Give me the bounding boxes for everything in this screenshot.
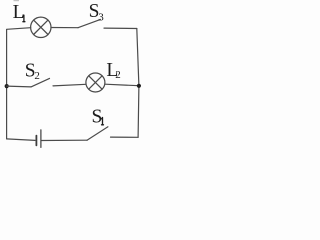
wire: right vertical — [137, 29, 139, 138]
wire: middle left segment to switch S2 pivot — [7, 85, 31, 88]
label L1 — [13, 2, 25, 23]
battery negative plate (short thick) — [35, 136, 37, 146]
svg-text:3: 3 — [98, 12, 104, 24]
label S2 — [25, 60, 40, 82]
wire: battery to switch S1 pivot — [42, 139, 87, 141]
label S1 — [92, 107, 104, 128]
wire: switch S2 fixed contact to lamp L2 — [53, 84, 86, 86]
wire: lamp L2 to right junction — [105, 84, 139, 86]
lamp L1 — [31, 17, 51, 37]
svg-text:L: L — [13, 2, 25, 23]
lamp L2 — [86, 73, 105, 92]
wire: lamp L1 to switch S3 pivot — [51, 27, 78, 29]
node: junction dot right (middle wire / right wire) — [137, 84, 141, 88]
battery positive plate (long thin) — [40, 130, 42, 148]
label S3 — [89, 1, 105, 24]
wire: switch S3 fixed contact to top-right corner — [104, 27, 137, 29]
node: junction dot left (middle wire / left wire) — [5, 84, 9, 88]
switch S3 blade — [78, 19, 101, 27]
scan smudge at top edge — [14, 0, 20, 1]
switch S1 blade — [87, 127, 108, 140]
wire: bottom-left corner to battery — [7, 139, 35, 141]
wire: switch S1 fixed contact to bottom-right corner — [111, 136, 139, 138]
svg-text:2: 2 — [34, 70, 40, 82]
svg-text:2: 2 — [115, 69, 121, 81]
svg-text:S: S — [92, 107, 103, 128]
wire: left vertical + top-left corner to lamp L1 — [7, 28, 31, 139]
switch S2 blade — [31, 78, 50, 87]
label L2 — [106, 60, 120, 81]
